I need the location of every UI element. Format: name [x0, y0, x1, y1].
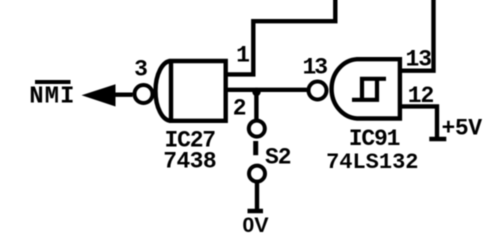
wire junction to switch: [254, 90, 258, 119]
svg-text:NMI: NMI: [29, 84, 75, 111]
svg-text:74LS132: 74LS132: [326, 150, 418, 175]
wire pin12 to +5V: [400, 106, 437, 139]
switch S2 terminal 2: [249, 166, 265, 182]
svg-text:12: 12: [408, 83, 434, 109]
wire pin2 net to IC91 bubble: [226, 88, 307, 92]
svg-text:2: 2: [233, 96, 247, 122]
switch S2 lever: [253, 141, 258, 155]
inversion bubble IC91 pin 11: [309, 82, 327, 100]
schmitt nand gate IC91: [332, 59, 400, 118]
ground 0V rail bar: [248, 209, 264, 214]
svg-text:13: 13: [405, 47, 431, 73]
svg-text:7438: 7438: [163, 149, 216, 175]
node NMI arrowhead: [82, 84, 116, 106]
svg-text:S2: S2: [265, 144, 291, 170]
junction dot S2 tap: [252, 88, 260, 96]
switch S2 terminal 1: [249, 121, 265, 137]
wire pin13 net to top edge: [400, 0, 434, 71]
wire pin3 to arrow: [112, 92, 133, 96]
node NMI overline: [35, 80, 71, 84]
svg-text:IC91: IC91: [349, 126, 400, 152]
inversion bubble IC27 pin 3: [135, 85, 153, 103]
wire pin1 net to top edge: [226, 0, 336, 74]
svg-text:3: 3: [134, 57, 148, 83]
nand gate IC27: [156, 61, 226, 121]
svg-text:0V: 0V: [242, 213, 269, 237]
svg-text:+5V: +5V: [442, 116, 483, 142]
schmitt hysteresis symbol: [352, 79, 386, 100]
power +5V rail bar: [429, 137, 446, 142]
svg-text:13: 13: [302, 55, 327, 81]
svg-text:1: 1: [236, 43, 250, 69]
wire switch to 0V rail: [255, 182, 259, 209]
